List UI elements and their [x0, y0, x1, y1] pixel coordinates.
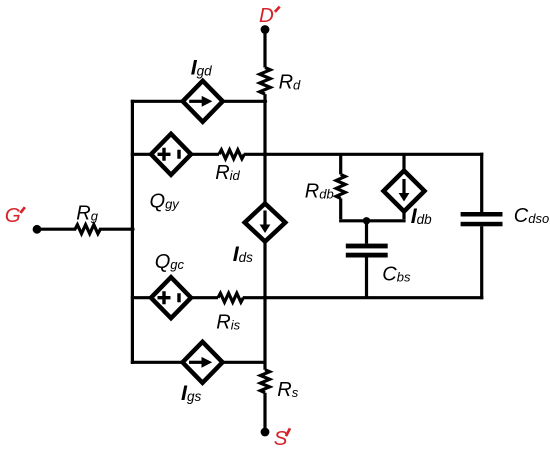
wire left rail: [131, 100, 134, 364]
wire D' to Rd: [263, 33, 266, 68]
wire Qgy branch left: [131, 153, 151, 156]
current source Igd: [183, 81, 223, 122]
wire Rs to S': [263, 393, 266, 429]
wire top net to right: [244, 153, 483, 156]
svg-text:Cbs: Cbs: [382, 263, 411, 285]
capacitor Cbs: [346, 221, 388, 298]
resistor Rid: [219, 150, 244, 159]
resistor Rs: [260, 370, 269, 393]
junction middle rail upper: [263, 152, 267, 156]
resistor Rg: [40, 225, 132, 234]
wire Qgc branch left: [131, 296, 151, 299]
wire Rd down middle rail: [263, 94, 266, 203]
wire Idb top lead: [402, 154, 405, 170]
svg-text:Igd: Igd: [191, 56, 212, 80]
wire Ids to bottom net: [263, 242, 266, 370]
voltage source Qgc diamond: [151, 277, 191, 318]
terminal D': [261, 25, 270, 34]
svg-text:Qgy: Qgy: [150, 191, 181, 213]
svg-text:Rg: Rg: [76, 202, 98, 224]
svg-text:Cdso: Cdso: [514, 205, 549, 227]
junction middle rail top: [263, 99, 267, 103]
wire Igd branch right: [223, 100, 265, 103]
wire Qgc to Ris: [191, 296, 218, 299]
wire Igs branch right: [223, 361, 266, 364]
wire mid net to right: [243, 296, 483, 299]
junction middle rail lower: [263, 296, 267, 300]
resistor Rd: [260, 68, 271, 95]
svg-text:Ris: Ris: [216, 311, 240, 333]
junction left rail: [130, 227, 134, 231]
wire Rdb bottom lead: [339, 198, 342, 219]
capacitor Cdso: [461, 153, 503, 300]
resistor Rdb: [336, 174, 345, 198]
wire Igd branch left: [131, 100, 183, 103]
svg-text:Rs: Rs: [277, 379, 298, 401]
voltage source Qgy diamond: [151, 134, 191, 175]
wire Igs branch left: [131, 361, 183, 364]
current source Ids: [245, 204, 286, 242]
resistor Ris: [218, 293, 243, 302]
terminal S': [261, 428, 270, 437]
svg-text:Ids: Ids: [233, 242, 253, 266]
wire Rdb top lead: [339, 154, 342, 174]
current source Idb: [384, 171, 425, 212]
current source Igs: [183, 342, 223, 383]
wire Qgy to Rid: [191, 153, 219, 156]
wire Idb bottom lead: [402, 211, 405, 219]
node B junction dot: [363, 217, 370, 224]
wire Rdb-Idb connector: [339, 219, 406, 222]
svg-text:Igs: Igs: [181, 381, 201, 405]
svg-text:Qgc: Qgc: [155, 251, 185, 273]
terminal G': [33, 225, 42, 234]
svg-text:S: S: [274, 427, 288, 450]
svg-text:Rid: Rid: [215, 162, 240, 184]
svg-text:Rdb: Rdb: [305, 181, 334, 203]
svg-text:Rd: Rd: [279, 72, 301, 94]
svg-text:G: G: [5, 204, 21, 227]
svg-text:Idb: Idb: [411, 204, 432, 228]
svg-text:D: D: [259, 4, 274, 27]
